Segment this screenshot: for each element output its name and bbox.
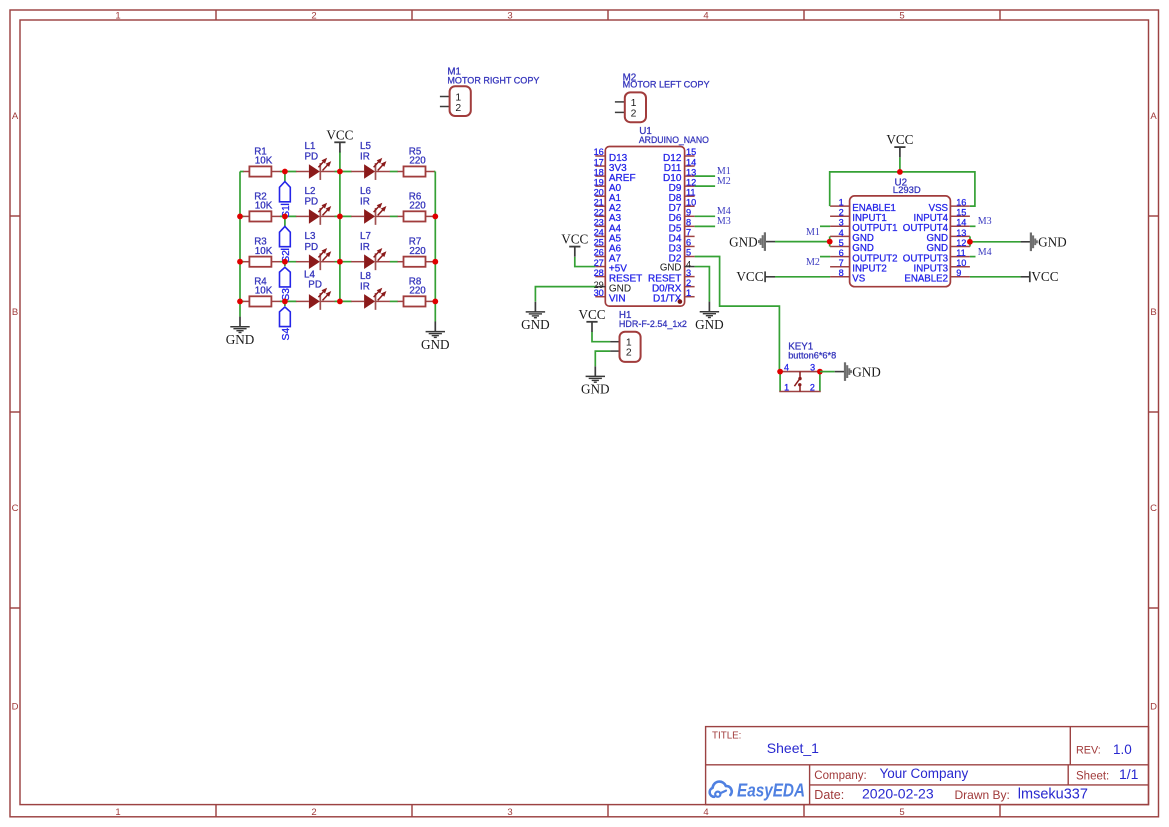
pin 30 VIN xyxy=(594,288,626,305)
svg-text:28: 28 xyxy=(594,268,604,278)
wire net M1 xyxy=(695,175,716,177)
svg-text:4: 4 xyxy=(839,228,844,238)
op-amp U1 ARDUINO_NANO xyxy=(594,126,709,306)
svg-text:VCC: VCC xyxy=(736,269,763,284)
svg-text:220: 220 xyxy=(409,246,426,257)
svg-text:GND: GND xyxy=(581,382,610,397)
svg-text:8: 8 xyxy=(686,218,691,228)
junction xyxy=(282,299,288,305)
junction xyxy=(282,214,288,220)
ground left matrix xyxy=(226,317,255,347)
svg-text:PD: PD xyxy=(308,280,322,291)
svg-text:8: 8 xyxy=(839,268,844,278)
svg-text:2: 2 xyxy=(455,103,461,114)
wire KEY1 to ground xyxy=(820,371,835,373)
svg-text:1: 1 xyxy=(455,92,461,103)
LED L8 xyxy=(351,271,390,310)
power flag VCC net flag U2 xyxy=(886,132,913,157)
svg-text:9: 9 xyxy=(956,268,961,278)
svg-text:2: 2 xyxy=(839,208,844,218)
svg-text:M4: M4 xyxy=(978,247,992,258)
svg-text:220: 220 xyxy=(409,286,426,297)
pin 2 INPUT1 xyxy=(830,208,887,224)
svg-text:Date:: Date: xyxy=(814,788,844,802)
pin 8 D5 xyxy=(669,218,695,235)
svg-text:M3: M3 xyxy=(978,216,992,227)
svg-text:10K: 10K xyxy=(255,156,273,167)
wire net M3 U2 xyxy=(970,225,976,227)
svg-text:Sheet_1: Sheet_1 xyxy=(767,740,819,756)
wire net M3 xyxy=(695,225,716,227)
ground H1 xyxy=(581,366,610,396)
power flag VCC net flag U1 xyxy=(561,232,588,257)
svg-text:11: 11 xyxy=(686,187,696,197)
pin 3 RESET xyxy=(648,268,695,285)
svg-text:GND: GND xyxy=(695,317,724,332)
svg-text:9: 9 xyxy=(686,208,691,218)
pin 12 D9 xyxy=(669,177,697,194)
svg-text:GND: GND xyxy=(226,332,255,347)
svg-text:15: 15 xyxy=(956,208,966,218)
svg-text:M2: M2 xyxy=(806,257,820,268)
svg-text:MOTOR RIGHT COPY: MOTOR RIGHT COPY xyxy=(447,75,540,86)
junction KEY1 pin4 xyxy=(777,369,783,375)
wire VCC rail U2 xyxy=(830,172,975,206)
svg-text:2: 2 xyxy=(686,278,691,288)
wire net M2 xyxy=(695,185,716,187)
junction VCC rail xyxy=(897,169,903,175)
svg-text:2: 2 xyxy=(311,10,316,21)
wire D2 to KEY1 xyxy=(695,257,780,372)
junction xyxy=(432,214,438,220)
pin 2 D0/RX xyxy=(652,278,695,295)
pin 27 +5V xyxy=(594,258,628,275)
svg-text:3: 3 xyxy=(839,218,844,228)
pin 5 D2 xyxy=(669,248,695,265)
svg-text:17: 17 xyxy=(594,157,604,167)
svg-text:22: 22 xyxy=(594,208,604,218)
svg-text:220: 220 xyxy=(409,201,426,212)
svg-text:1: 1 xyxy=(115,807,120,818)
pin 25 A6 xyxy=(594,238,622,255)
svg-text:B: B xyxy=(12,307,18,318)
svg-text:5: 5 xyxy=(899,807,904,818)
svg-text:C: C xyxy=(1150,503,1157,514)
svg-text:Drawn By:: Drawn By: xyxy=(955,788,1010,802)
svg-text:18: 18 xyxy=(594,167,604,177)
svg-text:PD: PD xyxy=(305,197,319,208)
svg-text:2: 2 xyxy=(631,109,637,120)
pin 22 A3 xyxy=(594,208,622,225)
svg-text:GND: GND xyxy=(852,365,881,380)
wire ground to pins 13,12 xyxy=(969,236,971,246)
pin 24 A5 xyxy=(594,228,622,245)
LED L1 xyxy=(296,141,335,180)
svg-text:IR: IR xyxy=(360,282,370,293)
svg-text:VCC: VCC xyxy=(1031,269,1058,284)
pin 13 GND xyxy=(926,228,969,244)
svg-text:D: D xyxy=(1150,701,1157,712)
junction xyxy=(237,259,243,265)
svg-text:GND: GND xyxy=(660,262,682,273)
pin 17 3V3 xyxy=(594,157,628,174)
svg-text:21: 21 xyxy=(594,197,604,207)
svg-text:13: 13 xyxy=(956,228,966,238)
ground KEY1 xyxy=(835,362,881,381)
svg-text:2: 2 xyxy=(626,347,632,358)
svg-text:10K: 10K xyxy=(255,286,273,297)
wire ground to pins 4,5 xyxy=(829,236,831,246)
pin 9 ENABLE2 xyxy=(904,268,970,284)
svg-text:3: 3 xyxy=(686,268,691,278)
pin 12 GND xyxy=(926,238,969,254)
svg-text:ENABLE2: ENABLE2 xyxy=(904,274,948,285)
svg-text:3: 3 xyxy=(507,807,512,818)
svg-text:1: 1 xyxy=(686,288,691,298)
switch KEY1 button6*6*8 xyxy=(779,342,836,393)
net port S4 xyxy=(280,301,292,340)
svg-text:B: B xyxy=(1150,307,1156,318)
svg-text:16: 16 xyxy=(956,198,966,208)
svg-text:2020-02-23: 2020-02-23 xyxy=(862,785,934,801)
svg-text:IR: IR xyxy=(360,197,370,208)
EasyEDA logo xyxy=(710,780,805,801)
wire VCC to pin 8 xyxy=(775,276,830,278)
svg-text:button6*6*8: button6*6*8 xyxy=(788,350,836,361)
pin 7 INPUT2 xyxy=(830,258,887,274)
svg-text:PD: PD xyxy=(305,152,319,163)
svg-text:23: 23 xyxy=(594,218,604,228)
wire VCC to pin 9 xyxy=(970,276,1021,278)
svg-text:1: 1 xyxy=(784,382,789,392)
pin 10 INPUT3 xyxy=(914,258,970,274)
resistor R3 xyxy=(243,237,280,267)
title block xyxy=(706,727,1149,805)
pin 1 ENABLE1 xyxy=(830,198,896,214)
svg-text:ARDUINO_NANO: ARDUINO_NANO xyxy=(639,135,709,146)
svg-text:GND: GND xyxy=(421,337,450,352)
junction xyxy=(337,214,343,220)
svg-text:REV:: REV: xyxy=(1076,745,1101,757)
svg-text:10K: 10K xyxy=(255,246,273,257)
wire VCC column xyxy=(339,152,341,302)
wire VCC to H1 pin1 xyxy=(592,332,610,342)
resistor R4 xyxy=(243,276,280,306)
svg-text:26: 26 xyxy=(594,248,604,258)
svg-text:2: 2 xyxy=(311,807,316,818)
svg-text:19: 19 xyxy=(594,177,604,187)
svg-text:IR: IR xyxy=(360,152,370,163)
svg-text:24: 24 xyxy=(594,228,604,238)
svg-text:7: 7 xyxy=(686,228,691,238)
svg-text:VCC: VCC xyxy=(886,132,913,147)
junction xyxy=(282,169,288,175)
net port S2 xyxy=(280,216,292,262)
svg-text:14: 14 xyxy=(956,218,966,228)
svg-text:D1/TX: D1/TX xyxy=(653,294,682,305)
wire net M4 xyxy=(695,215,716,217)
svg-text:L2: L2 xyxy=(305,186,316,197)
ground U2 left xyxy=(729,232,775,251)
svg-text:HDR-F-2.54_1x2: HDR-F-2.54_1x2 xyxy=(619,319,687,330)
svg-text:L8: L8 xyxy=(360,271,371,282)
power flag VCC net flag H1 xyxy=(578,307,605,332)
svg-text:TITLE:: TITLE: xyxy=(712,730,741,741)
LED L6 xyxy=(351,186,390,225)
svg-text:D: D xyxy=(12,701,19,712)
net port S1 xyxy=(280,172,292,218)
pin 4 GND xyxy=(660,260,695,274)
pin 11 D8 xyxy=(669,187,696,204)
svg-text:A: A xyxy=(12,111,19,122)
wire left column to GND xyxy=(239,172,241,317)
svg-text:7: 7 xyxy=(839,258,844,268)
svg-text:L5: L5 xyxy=(360,141,371,152)
svg-text:25: 25 xyxy=(594,238,604,248)
wire VCC stem xyxy=(899,157,901,172)
svg-text:GND: GND xyxy=(729,235,758,250)
svg-text:10K: 10K xyxy=(255,201,273,212)
svg-text:4: 4 xyxy=(784,363,789,373)
svg-text:30: 30 xyxy=(594,288,604,298)
junction xyxy=(432,259,438,265)
pin 21 A2 xyxy=(594,197,622,214)
pin 11 OUTPUT3 xyxy=(903,248,970,264)
svg-text:6: 6 xyxy=(839,248,844,258)
svg-text:16: 16 xyxy=(594,147,604,157)
svg-text:1: 1 xyxy=(115,10,120,21)
svg-text:L1: L1 xyxy=(305,141,316,152)
pin 18 AREF xyxy=(594,167,636,184)
pin 16 D13 xyxy=(594,147,628,164)
svg-text:4: 4 xyxy=(703,807,708,818)
pin 15 D12 xyxy=(663,147,696,164)
pin 3 OUTPUT1 xyxy=(830,218,897,234)
resistor R8 xyxy=(398,276,435,306)
junction xyxy=(337,299,343,305)
resistor R2 xyxy=(243,191,280,221)
resistor R7 xyxy=(398,237,435,267)
wire pin 4 to ground xyxy=(695,267,710,302)
svg-text:11: 11 xyxy=(956,248,966,258)
svg-text:EasyEDA: EasyEDA xyxy=(737,780,805,801)
LED L3 xyxy=(296,231,335,270)
wire net M4 U2 xyxy=(970,256,976,258)
pin 29 GND xyxy=(594,280,632,295)
junction xyxy=(432,299,438,305)
wire VCC to pin 27 xyxy=(575,257,596,267)
pin 1 D1/TX xyxy=(653,288,695,305)
pin 19 A0 xyxy=(594,177,622,194)
svg-text:12: 12 xyxy=(956,238,966,248)
junction U2 left GND xyxy=(827,239,833,245)
junction xyxy=(237,299,243,305)
pin 14 OUTPUT4 xyxy=(903,218,970,234)
power flag VCC net flag U2 right xyxy=(1021,269,1059,284)
svg-text:VCC: VCC xyxy=(561,232,588,247)
svg-text:IR: IR xyxy=(360,242,370,253)
svg-text:14: 14 xyxy=(686,157,696,167)
pin 20 A1 xyxy=(594,187,622,204)
resistor R5 xyxy=(398,147,435,177)
svg-text:VCC: VCC xyxy=(578,307,605,322)
svg-text:10: 10 xyxy=(686,197,696,207)
power flag VCC net flag xyxy=(326,127,353,152)
junction xyxy=(282,259,288,265)
wire net M1 U2 xyxy=(820,225,830,227)
pin 26 A7 xyxy=(594,248,622,265)
svg-text:L6: L6 xyxy=(360,186,371,197)
svg-text:C: C xyxy=(12,503,19,514)
connector M1 MOTOR RIGHT COPY xyxy=(440,66,540,116)
pin 8 VS xyxy=(830,268,866,284)
connector H1 HDR-F-2.54_1x2 xyxy=(610,310,687,362)
svg-text:6: 6 xyxy=(686,238,691,248)
ground right matrix xyxy=(421,322,450,352)
resistor R1 xyxy=(243,147,280,177)
pin 28 RESET xyxy=(594,268,643,285)
pin 23 A4 xyxy=(594,218,622,235)
svg-text:VS: VS xyxy=(852,274,865,285)
pin 6 D3 xyxy=(669,238,695,255)
wire H1 pin2 to ground xyxy=(595,351,610,366)
ground U1 pin29 xyxy=(521,302,550,332)
svg-text:3: 3 xyxy=(810,363,815,373)
pin 13 D10 xyxy=(663,167,696,184)
svg-text:MOTOR LEFT COPY: MOTOR LEFT COPY xyxy=(623,80,711,91)
svg-text:S4: S4 xyxy=(281,328,292,341)
pin 5 GND xyxy=(830,238,874,254)
pin 14 D11 xyxy=(664,157,696,174)
pin 16 VSS xyxy=(929,198,970,214)
wire pin 29 to ground xyxy=(535,287,595,302)
wire net M2 U2 xyxy=(820,256,830,258)
svg-text:5: 5 xyxy=(839,238,844,248)
resistor R6 xyxy=(398,191,435,221)
ground U1 pin4 xyxy=(695,302,724,332)
power flag VCC net flag U2 left xyxy=(736,269,775,284)
pin 6 OUTPUT2 xyxy=(830,248,897,264)
svg-text:1: 1 xyxy=(839,198,844,208)
junction KEY1 pin3 xyxy=(817,369,823,375)
svg-text:L7: L7 xyxy=(360,231,371,242)
LED L2 xyxy=(296,186,335,225)
svg-text:M3: M3 xyxy=(717,216,731,227)
pin 10 D7 xyxy=(669,197,697,214)
svg-text:GND: GND xyxy=(521,317,550,332)
pin 9 D6 xyxy=(669,208,695,225)
svg-text:GND: GND xyxy=(1038,235,1067,250)
svg-text:5: 5 xyxy=(686,248,691,258)
svg-text:L3: L3 xyxy=(305,231,316,242)
svg-text:10: 10 xyxy=(956,258,966,268)
pin 7 D4 xyxy=(669,228,695,245)
op-amp U2 L293D xyxy=(830,177,970,286)
junction xyxy=(337,169,343,175)
svg-text:Your Company: Your Company xyxy=(880,766,969,781)
svg-text:1/1: 1/1 xyxy=(1119,766,1139,782)
svg-text:1.0: 1.0 xyxy=(1113,742,1132,757)
svg-text:1: 1 xyxy=(631,98,637,109)
wire right column to GND xyxy=(434,172,436,322)
connector M2 MOTOR LEFT COPY xyxy=(615,72,710,122)
wire row nets left matrix xyxy=(240,172,435,302)
svg-text:VIN: VIN xyxy=(609,294,626,305)
net port S3 xyxy=(280,262,292,301)
LED L5 xyxy=(351,141,390,180)
svg-text:15: 15 xyxy=(686,147,696,157)
svg-text:3: 3 xyxy=(507,10,512,21)
svg-text:Sheet:: Sheet: xyxy=(1076,770,1109,782)
svg-text:5: 5 xyxy=(899,10,904,21)
svg-text:L293D: L293D xyxy=(893,185,921,196)
pin 15 INPUT4 xyxy=(914,208,970,224)
svg-text:lmseku337: lmseku337 xyxy=(1018,786,1088,802)
ground U2 right xyxy=(1021,233,1067,252)
svg-text:4: 4 xyxy=(703,10,708,21)
junction xyxy=(237,214,243,220)
svg-text:A: A xyxy=(1150,111,1157,122)
svg-text:M1: M1 xyxy=(806,227,820,238)
svg-text:20: 20 xyxy=(594,187,604,197)
LED L4 xyxy=(296,270,335,310)
pin 4 GND xyxy=(830,228,874,244)
svg-text:220: 220 xyxy=(409,156,426,167)
polarity dot U1 xyxy=(678,299,683,304)
svg-text:M2: M2 xyxy=(717,176,731,187)
svg-text:VCC: VCC xyxy=(326,127,353,142)
svg-text:PD: PD xyxy=(305,242,319,253)
LED L7 xyxy=(351,231,390,270)
svg-text:Company:: Company: xyxy=(814,770,866,782)
junction U2 right GND xyxy=(967,239,973,245)
junction xyxy=(337,259,343,265)
svg-text:2: 2 xyxy=(810,382,815,392)
